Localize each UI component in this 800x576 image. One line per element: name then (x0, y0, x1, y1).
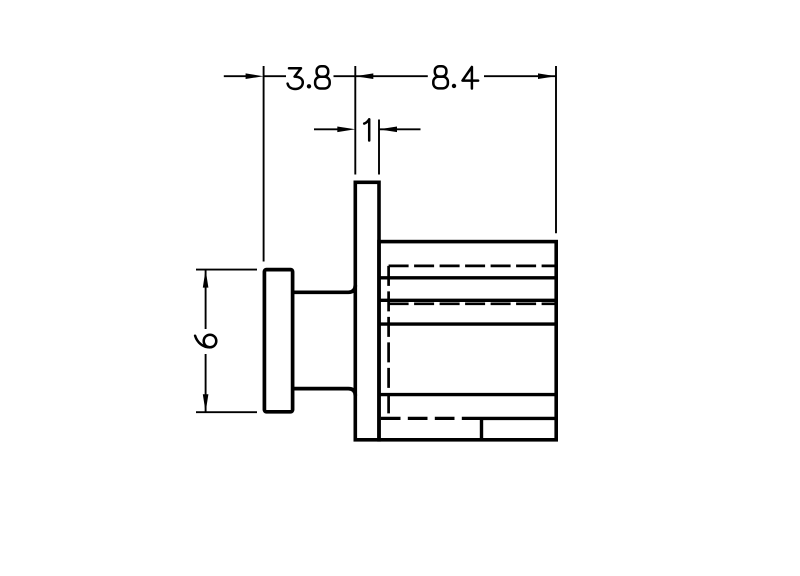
extension line 6 top (y=269.6) (196, 269, 257, 271)
stem bottom line with fillet (293, 389, 356, 396)
arrow 8.4 right (538, 73, 556, 79)
extension line 6 bottom (y=412.2) (196, 411, 257, 413)
body outline (right rectangle) (379, 242, 556, 440)
hidden dashed vertical x=388.6 (387, 266, 390, 419)
extension line flange right (x=379) (378, 120, 380, 175)
arrow 1 left (337, 127, 355, 133)
body internal solid line y=324.1 (379, 322, 556, 325)
body internal solid line y=300.3 (379, 299, 556, 302)
arrow 8.4 left (355, 73, 373, 79)
dimension line 1 (314, 128, 421, 130)
dimension line 6 (205, 270, 207, 413)
label 1 (364, 119, 369, 140)
stem top line with fillet (293, 285, 356, 292)
body internal solid line y=277.8 (379, 276, 556, 279)
hidden dashed line y=417.3 (left part) (381, 417, 482, 420)
extension line left (x=263.6) (263, 66, 265, 262)
arrow 1 right (379, 127, 397, 133)
label 6 (rotated) (195, 335, 216, 348)
extension line middle (x=355.3) (354, 66, 356, 175)
hidden dashed line y=265.9 (389, 265, 555, 268)
step edge line y=417.3 (solid right part) (482, 417, 557, 420)
arrow 6 bottom (203, 394, 209, 412)
dimension line 3.8 (224, 75, 355, 77)
flange (tall thin rectangle) (355, 182, 379, 440)
arrow 3.8 left (246, 73, 264, 79)
label 3.8 (288, 66, 330, 89)
step vertical edge x=481.5 (480, 418, 483, 439)
dimension line 8.4 (355, 75, 556, 77)
extension line right (x=556) (555, 66, 557, 233)
hidden dashed line y=303.8 (389, 302, 555, 305)
arrow 6 top (203, 270, 209, 288)
cap (left small rectangle) (264, 270, 292, 412)
body internal solid line y=394.6 (379, 393, 556, 396)
label 8.4 (433, 66, 478, 88)
